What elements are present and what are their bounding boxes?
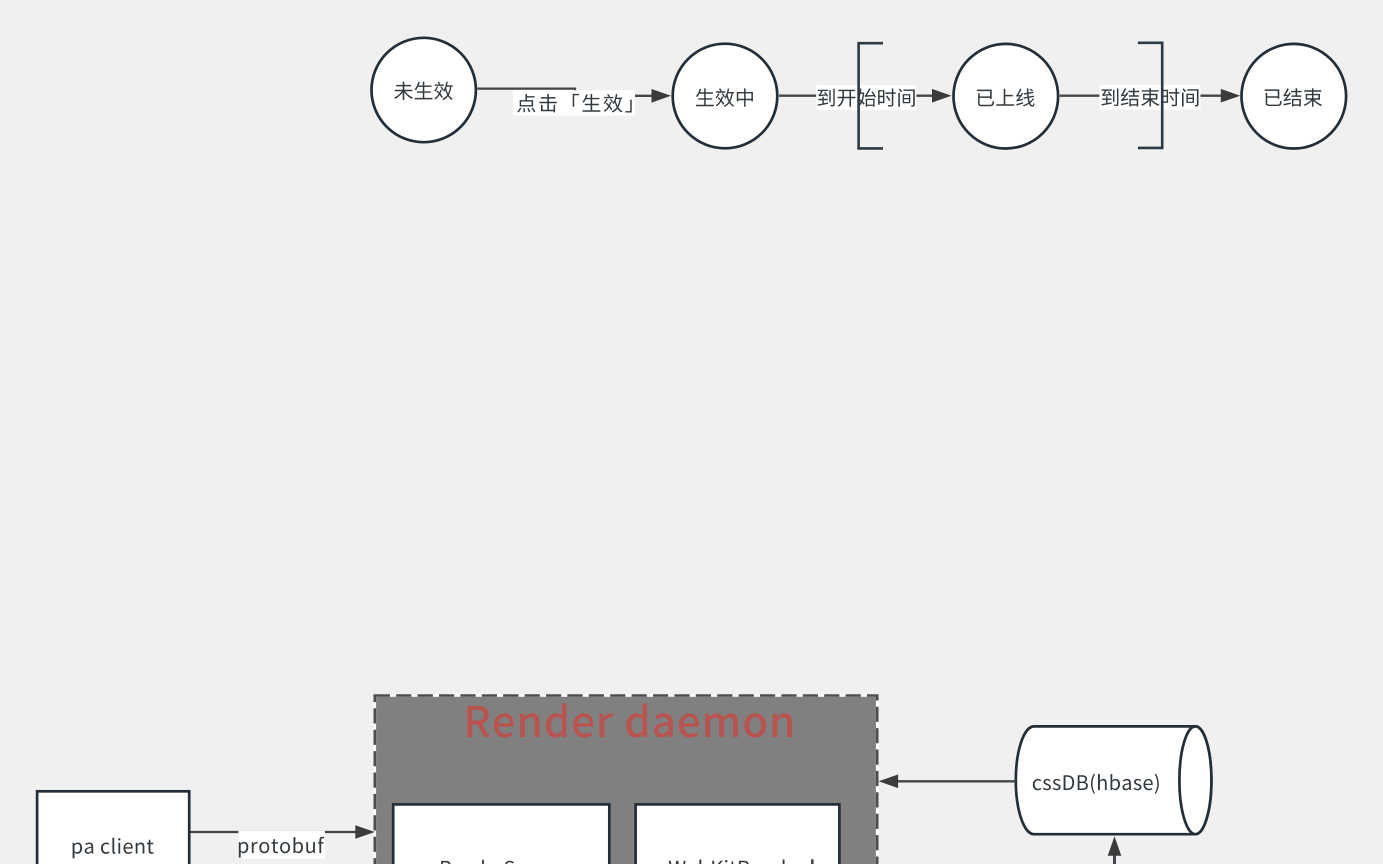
state node 未生效 [372, 38, 476, 142]
arrowhead into cylinder bottom [1108, 836, 1122, 856]
state node 已结束 [1242, 44, 1347, 149]
label: 到开始时间 on edge [816, 85, 916, 110]
arrowhead into 已结束 [1221, 89, 1241, 103]
wire: edge 未生效 -> 生效中 [478, 89, 654, 96]
cylinder cap ellipse [1179, 726, 1211, 834]
left square bracket [ [859, 43, 883, 148]
wire: vertical edge at WebKitRender box [811, 859, 814, 864]
wire: edge pa client -> Render daemon [189, 831, 356, 833]
right square bracket ] [1138, 43, 1162, 148]
wire: edge cssDB -> Render daemon [898, 780, 1017, 782]
arrowhead into Render daemon [355, 825, 375, 839]
label: 点击「生效」 on edge [513, 90, 635, 116]
wire: edge 已上线 -> 已结束 [1060, 95, 1222, 97]
arrowhead into 已上线 [932, 89, 952, 103]
arrowhead into Render daemon right edge [879, 775, 899, 789]
process box: pa client [37, 791, 189, 864]
label: cssDB(hbase) [1033, 774, 1159, 794]
wire: edge 生效中 -> 已上线 [779, 95, 933, 97]
arrowhead into 生效中 [652, 89, 672, 103]
label: protobuf on edge [238, 831, 325, 859]
state node 生效中 [673, 44, 778, 149]
wire: upward edge into cssDB bottom [1113, 855, 1116, 864]
process box: WebKitRender [636, 804, 840, 864]
process box: RenderServer [393, 804, 609, 864]
state node 已上线 [954, 44, 1059, 149]
title: Render daemon [467, 703, 792, 737]
label: 到结束时间 on edge [1099, 85, 1200, 110]
container: Render daemon (gray dashed box) [375, 696, 877, 864]
database cylinder: cssDB(hbase) [1016, 726, 1212, 834]
